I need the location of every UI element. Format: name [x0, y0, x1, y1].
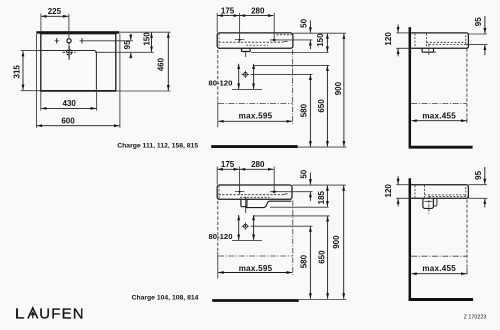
svg-text:50: 50 [300, 169, 309, 178]
svg-text:L: L [15, 306, 25, 322]
svg-text:580: 580 [300, 103, 309, 117]
svg-text:225: 225 [48, 7, 62, 16]
svg-text:max.455: max.455 [422, 264, 456, 273]
svg-text:650: 650 [318, 250, 327, 264]
svg-text:900: 900 [332, 235, 341, 249]
svg-text:95: 95 [474, 17, 483, 26]
svg-text:460: 460 [156, 57, 165, 71]
svg-text:Charge 111, 112, 158, 815: Charge 111, 112, 158, 815 [117, 143, 198, 150]
svg-text:max.595: max.595 [239, 111, 273, 120]
svg-text:280: 280 [251, 6, 265, 15]
svg-text:175: 175 [221, 160, 235, 169]
svg-text:580: 580 [300, 254, 309, 268]
svg-text:max.455: max.455 [422, 111, 456, 120]
svg-text:80-120: 80-120 [209, 232, 233, 241]
svg-text:80-120: 80-120 [208, 78, 232, 87]
svg-text:600: 600 [61, 116, 75, 125]
svg-text:Z 170223: Z 170223 [464, 315, 487, 321]
svg-text:430: 430 [63, 99, 77, 108]
svg-text:280: 280 [251, 160, 265, 169]
svg-text:95: 95 [474, 170, 483, 179]
svg-text:185: 185 [317, 190, 326, 204]
svg-text:50: 50 [299, 18, 308, 27]
svg-text:120: 120 [384, 184, 393, 198]
svg-text:150: 150 [316, 33, 325, 47]
svg-text:900: 900 [334, 81, 343, 95]
svg-text:650: 650 [317, 99, 326, 113]
svg-text:315: 315 [13, 65, 22, 79]
svg-text:UFEN: UFEN [39, 306, 85, 323]
svg-text:Charge 104, 108, 814: Charge 104, 108, 814 [132, 294, 199, 301]
svg-text:120: 120 [384, 32, 393, 46]
svg-text:150: 150 [142, 32, 151, 46]
svg-text:175: 175 [221, 6, 235, 15]
svg-text:95: 95 [123, 40, 132, 49]
svg-text:max.595: max.595 [239, 264, 273, 273]
